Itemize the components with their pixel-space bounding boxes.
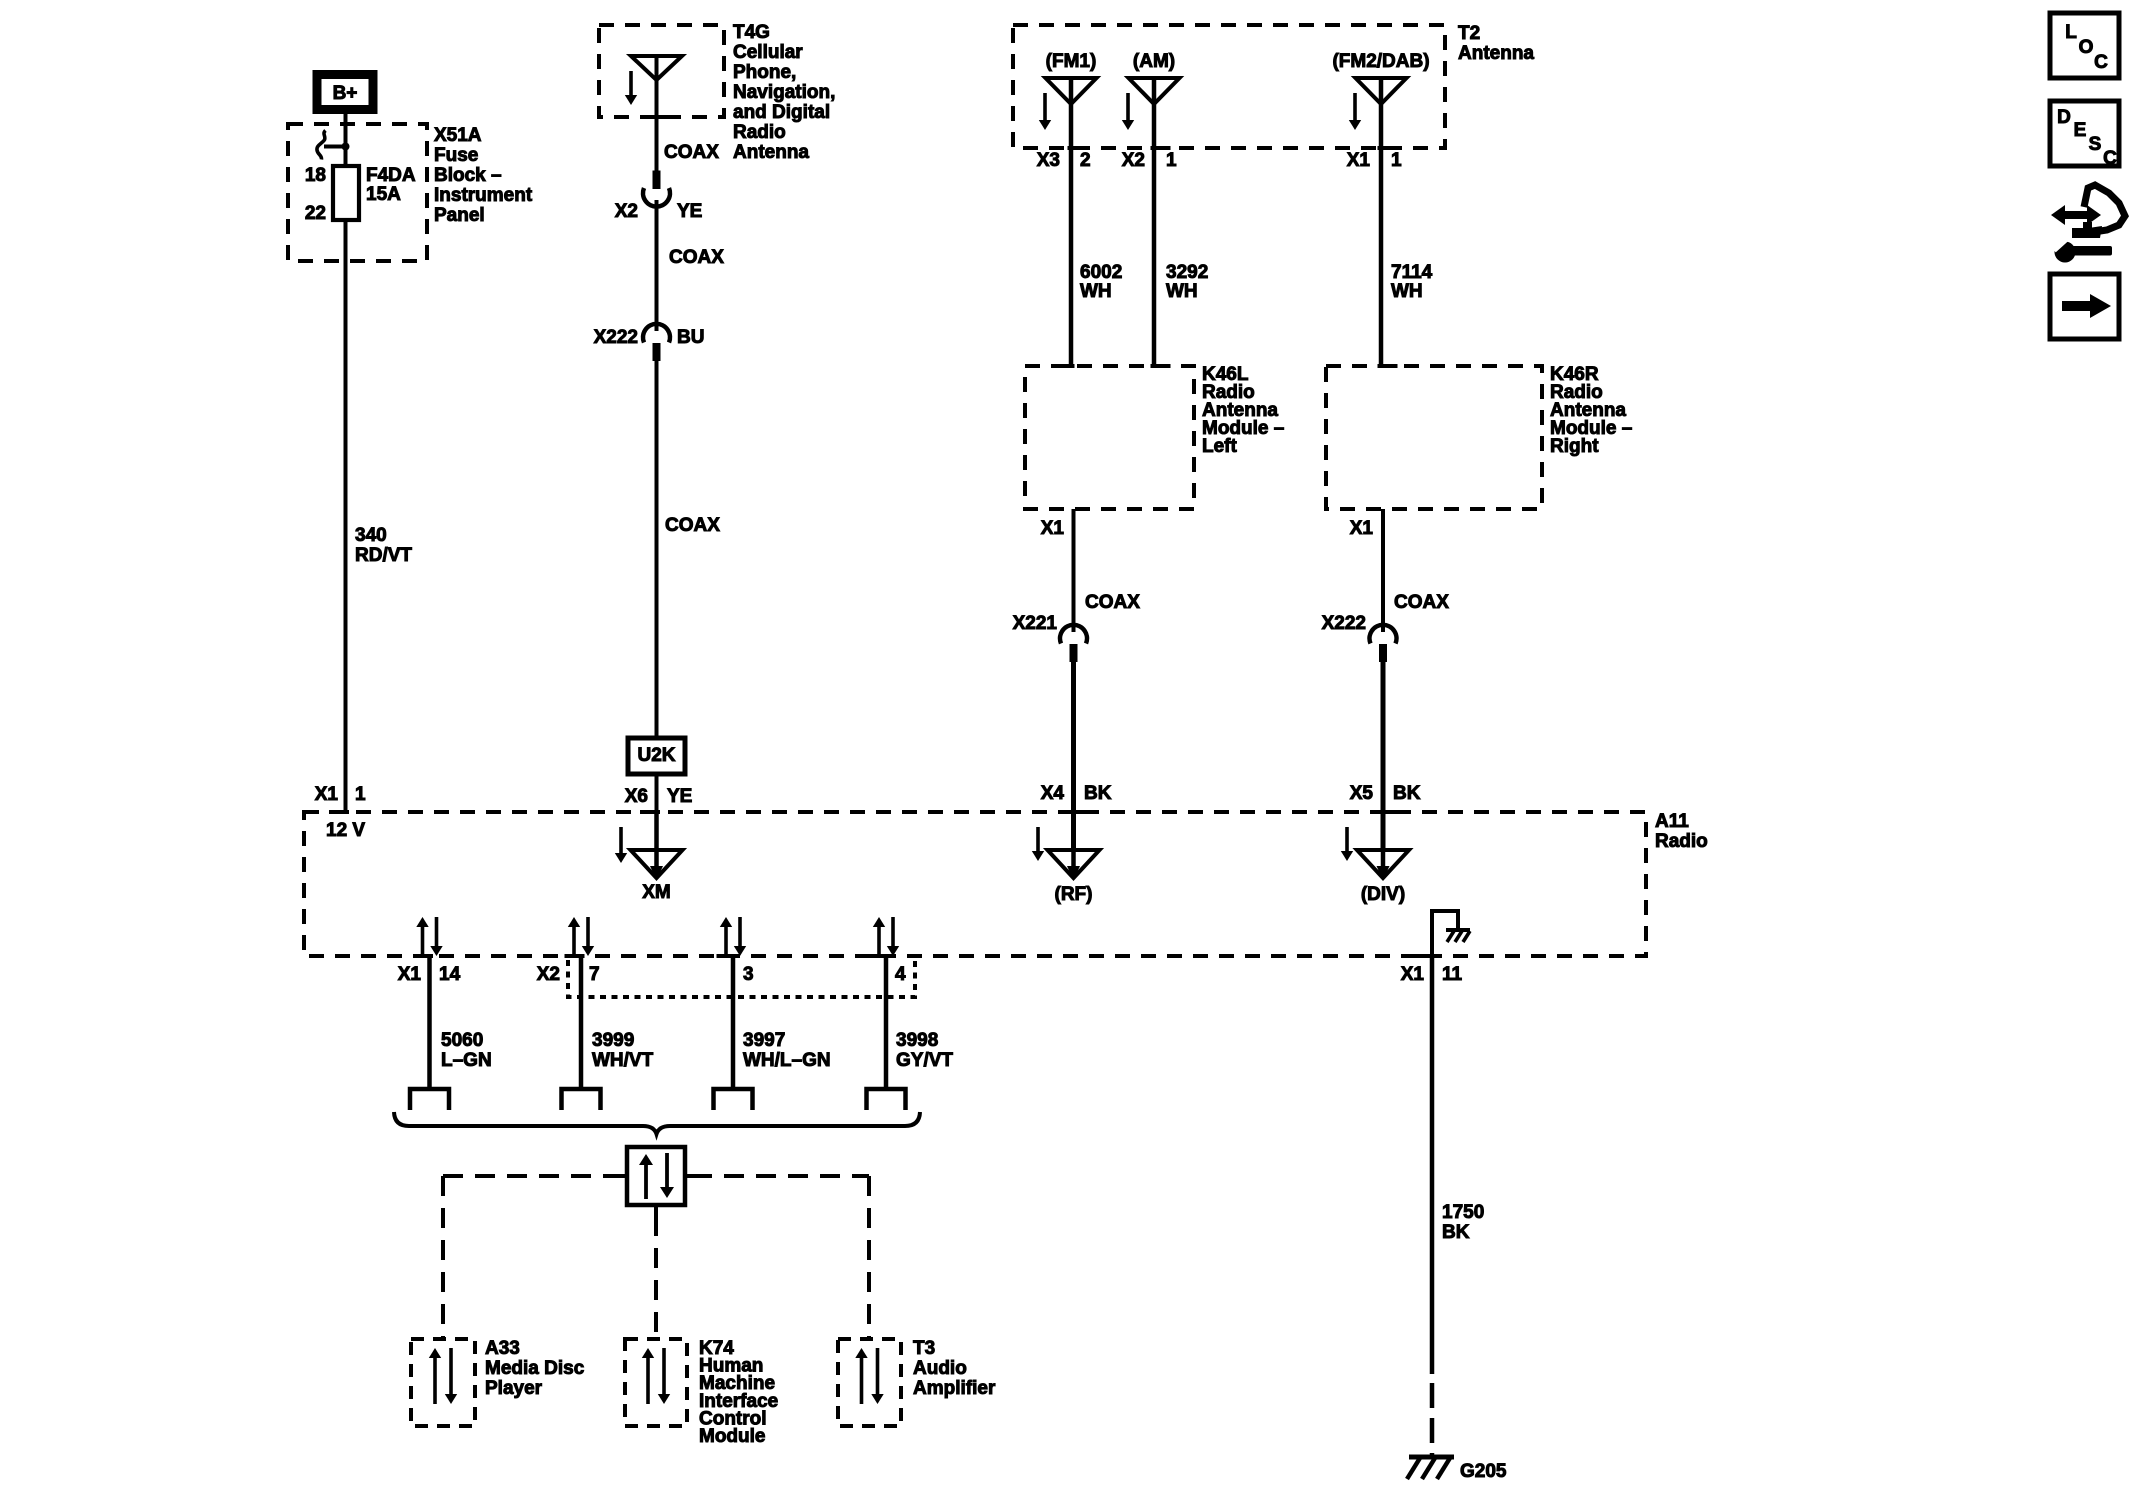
svg-text:BK: BK xyxy=(1393,783,1421,804)
tick at T4G box edge xyxy=(653,115,673,119)
svg-text:(DIV): (DIV) xyxy=(1361,884,1405,905)
pin X1 11 xyxy=(1401,956,1463,985)
svg-text:C: C xyxy=(2094,52,2108,73)
label (RF) xyxy=(1055,884,1093,905)
wire K46R X1 out xyxy=(1350,509,1383,632)
svg-text:T3: T3 xyxy=(913,1338,935,1359)
label 340 RD/VT xyxy=(355,525,412,566)
wire 3998 GY/VT xyxy=(884,956,889,1089)
pin X1 1 of radio xyxy=(315,784,366,812)
coax connector X2 xyxy=(643,171,670,207)
svg-text:Block –: Block – xyxy=(434,165,502,186)
svg-text:X1: X1 xyxy=(1401,964,1425,985)
coax connector X222 xyxy=(643,324,670,361)
label T2 Antenna xyxy=(1458,23,1534,64)
wire 5060 L-GN xyxy=(427,956,432,1089)
K46L module box xyxy=(1025,366,1194,509)
wire FM1 6002 WH xyxy=(1069,78,1074,366)
svg-text:(FM2/DAB): (FM2/DAB) xyxy=(1332,51,1429,72)
svg-text:3999: 3999 xyxy=(592,1030,634,1051)
svg-text:O: O xyxy=(2079,37,2094,58)
RF antenna symbol xyxy=(1048,850,1100,880)
svg-text:and Digital: and Digital xyxy=(733,102,830,123)
svg-text:X1: X1 xyxy=(398,964,422,985)
fuse pin 22 xyxy=(305,203,326,224)
label T4G xyxy=(733,22,835,163)
svg-text:S: S xyxy=(2089,134,2102,155)
label COAX 3 xyxy=(665,515,720,536)
svg-text:15A: 15A xyxy=(366,184,401,205)
svg-text:Right: Right xyxy=(1550,436,1599,457)
dashed bus right xyxy=(685,1174,869,1178)
label X222 BU xyxy=(594,327,705,348)
fuse pin 18 xyxy=(305,165,326,186)
svg-text:RD/VT: RD/VT xyxy=(355,545,412,566)
svg-text:BK: BK xyxy=(1442,1222,1470,1243)
svg-text:X2: X2 xyxy=(615,201,638,222)
wire 340 RD/VT xyxy=(344,220,348,812)
wire K46L X1 out xyxy=(1041,509,1074,632)
svg-text:Radio: Radio xyxy=(733,122,786,143)
svg-text:X3: X3 xyxy=(1037,150,1060,171)
coax wire X2 to X222 xyxy=(655,200,659,331)
label COAX left xyxy=(1085,592,1140,613)
XM antenna symbol xyxy=(631,850,683,880)
pin X4 BK xyxy=(1041,783,1112,812)
DIV antenna symbol xyxy=(1357,850,1409,880)
svg-text:WH/VT: WH/VT xyxy=(592,1050,654,1071)
coax connector X222 right xyxy=(1322,613,1397,662)
svg-text:C: C xyxy=(2103,148,2117,169)
svg-text:Antenna: Antenna xyxy=(733,142,809,163)
label K46L xyxy=(1202,364,1284,457)
DIV signal arrow xyxy=(1341,827,1353,861)
label COAX 2 xyxy=(669,247,724,268)
svg-text:3: 3 xyxy=(743,964,754,985)
circuit breaker hook xyxy=(317,131,346,160)
svg-text:COAX: COAX xyxy=(665,515,720,536)
svg-text:(RF): (RF) xyxy=(1055,884,1093,905)
svg-text:X1: X1 xyxy=(1041,518,1065,539)
dashed drop to K74 xyxy=(654,1205,658,1339)
fuse F4DA 15A xyxy=(333,166,359,220)
svg-text:5060: 5060 xyxy=(441,1030,483,1051)
svg-text:3997: 3997 xyxy=(743,1030,785,1051)
battery feed B+ xyxy=(317,75,373,110)
AM signal arrow xyxy=(1122,93,1134,130)
splice U2K xyxy=(628,738,685,774)
radio data arrows pin 7 xyxy=(568,917,594,956)
svg-text:22: 22 xyxy=(305,203,326,224)
svg-text:X221: X221 xyxy=(1013,613,1058,634)
svg-text:Navigation,: Navigation, xyxy=(733,82,835,103)
AM antenna symbol xyxy=(1129,78,1180,104)
label 12 V xyxy=(326,820,365,841)
svg-text:E: E xyxy=(2074,120,2087,141)
XM signal arrow xyxy=(615,827,627,863)
label A11 Radio xyxy=(1655,811,1708,852)
svg-text:COAX: COAX xyxy=(664,142,719,163)
FM2/DAB antenna symbol xyxy=(1356,78,1407,104)
label K46R xyxy=(1550,364,1632,457)
svg-text:X222: X222 xyxy=(1322,613,1366,634)
svg-text:1: 1 xyxy=(1391,150,1402,171)
svg-text:GY/VT: GY/VT xyxy=(896,1050,953,1071)
svg-text:14: 14 xyxy=(439,964,461,985)
radio data arrows pin 4 xyxy=(873,917,899,956)
label 7114 WH xyxy=(1391,262,1433,302)
svg-text:3292: 3292 xyxy=(1166,262,1208,283)
svg-text:WH: WH xyxy=(1166,281,1198,302)
radio data arrows pin 3 xyxy=(720,917,746,956)
ground G205 xyxy=(1407,1457,1454,1479)
pin X2 1 xyxy=(1122,148,1177,171)
svg-text:Audio: Audio xyxy=(913,1358,967,1379)
label 1750 BK xyxy=(1442,1202,1484,1243)
svg-text:COAX: COAX xyxy=(669,247,724,268)
radio data arrows pin 14 xyxy=(416,917,442,956)
label 3999 WH/VT xyxy=(592,1030,654,1071)
K74 HMI box xyxy=(625,1339,687,1426)
svg-text:18: 18 xyxy=(305,165,326,186)
svg-text:12 V: 12 V xyxy=(326,820,365,841)
icon forward arrow xyxy=(2050,274,2119,339)
label 3292 WH xyxy=(1166,262,1208,302)
icon LOC xyxy=(2050,13,2119,78)
svg-text:340: 340 xyxy=(355,525,387,546)
svg-text:X5: X5 xyxy=(1350,783,1374,804)
svg-text:X51A: X51A xyxy=(434,125,482,146)
svg-text:X1: X1 xyxy=(1350,518,1374,539)
svg-text:7114: 7114 xyxy=(1391,262,1433,283)
svg-text:A33: A33 xyxy=(485,1338,520,1359)
wire 3999 WH/VT xyxy=(579,956,584,1089)
dashed bus left xyxy=(443,1174,627,1178)
svg-text:Antenna: Antenna xyxy=(1458,43,1534,64)
junction node xyxy=(342,143,350,151)
coax wire X222 to U2K xyxy=(655,358,659,738)
svg-text:G205: G205 xyxy=(1460,1461,1507,1482)
icon DESC xyxy=(2050,101,2119,169)
svg-text:3998: 3998 xyxy=(896,1030,938,1051)
wire AM 3292 WH xyxy=(1152,78,1157,366)
pin X3 2 xyxy=(1037,148,1091,171)
label G205 xyxy=(1460,1461,1507,1482)
svg-text:Phone,: Phone, xyxy=(733,62,796,83)
svg-text:WH: WH xyxy=(1391,281,1423,302)
svg-text:Media Disc: Media Disc xyxy=(485,1358,585,1379)
label COAX right xyxy=(1394,592,1449,613)
dashed drop to A33 xyxy=(441,1176,445,1339)
svg-text:7: 7 xyxy=(589,964,600,985)
svg-text:X1: X1 xyxy=(315,784,339,805)
T2 antenna box xyxy=(1013,25,1445,148)
A11 radio box xyxy=(304,812,1646,956)
label F4DA 15A xyxy=(366,165,416,205)
svg-text:1: 1 xyxy=(355,784,366,805)
svg-text:WH/L–GN: WH/L–GN xyxy=(743,1050,831,1071)
T3 data arrows xyxy=(855,1348,883,1404)
wire 3997 WH/L-GN xyxy=(731,956,736,1089)
pin X6 of radio xyxy=(625,786,693,812)
svg-text:X222: X222 xyxy=(594,327,638,348)
wire X221 to radio X4 xyxy=(1071,662,1076,812)
svg-text:D: D xyxy=(2057,107,2071,128)
label K74 xyxy=(699,1338,778,1447)
terminal connector pin 7 xyxy=(562,1089,601,1110)
terminal at K46L AM xyxy=(1151,364,1171,368)
RF signal arrow xyxy=(1032,827,1044,861)
radio internal ground xyxy=(1432,911,1470,956)
T4G antenna symbol xyxy=(631,56,682,80)
label (FM2/DAB) xyxy=(1332,51,1429,72)
wire FM2/DAB 7114 WH xyxy=(1379,78,1384,366)
coax wire antenna to X2 xyxy=(655,80,659,171)
pin X1 14 xyxy=(398,956,461,985)
FM1 signal arrow xyxy=(1039,93,1051,130)
svg-text:A11: A11 xyxy=(1655,811,1689,832)
svg-text:COAX: COAX xyxy=(1394,592,1449,613)
svg-text:L–GN: L–GN xyxy=(441,1050,492,1071)
svg-text:L: L xyxy=(2065,22,2077,43)
terminal connector pin 3 xyxy=(714,1089,753,1110)
svg-text:BU: BU xyxy=(677,327,704,348)
fuse block X51A outline xyxy=(288,124,427,261)
svg-text:Cellular: Cellular xyxy=(733,42,803,63)
label T3 xyxy=(913,1338,996,1399)
terminal connector pin 4 xyxy=(867,1089,906,1110)
K46R module box xyxy=(1326,366,1542,509)
pin X5 BK xyxy=(1350,783,1421,812)
svg-text:WH: WH xyxy=(1080,281,1112,302)
T3 audio amplifier box xyxy=(838,1339,901,1426)
svg-text:Instrument: Instrument xyxy=(434,185,533,206)
svg-text:4: 4 xyxy=(895,964,906,985)
terminal connector pin 14 xyxy=(410,1089,449,1110)
label X51A fuse block xyxy=(434,125,533,226)
serial data link box xyxy=(627,1147,685,1205)
svg-text:11: 11 xyxy=(1442,964,1463,985)
wire U2K to radio pin X6 xyxy=(655,774,659,812)
svg-text:T2: T2 xyxy=(1458,23,1480,44)
wire X6 to XM antenna xyxy=(654,812,659,850)
svg-text:B+: B+ xyxy=(333,83,358,104)
label 3997 WH/L-GN xyxy=(743,1030,831,1071)
T4G antenna box xyxy=(599,25,724,117)
label XM xyxy=(642,882,671,903)
svg-text:2: 2 xyxy=(1080,150,1091,171)
label COAX 1 xyxy=(664,142,719,163)
wire X5 to DIV antenna xyxy=(1381,812,1386,850)
svg-text:U2K: U2K xyxy=(637,745,675,766)
svg-text:Radio: Radio xyxy=(1655,831,1708,852)
A33 data arrows xyxy=(429,1348,457,1404)
svg-text:BK: BK xyxy=(1084,783,1112,804)
pin 3 xyxy=(717,956,754,985)
pin X1 1 antenna xyxy=(1347,148,1402,171)
svg-text:X2: X2 xyxy=(537,964,560,985)
svg-text:6002: 6002 xyxy=(1080,262,1122,283)
wire dashed to ground xyxy=(1430,1383,1435,1455)
bundle brace xyxy=(394,1112,920,1134)
label (AM) xyxy=(1133,51,1175,72)
svg-text:X6: X6 xyxy=(625,786,648,807)
label 5060 L-GN xyxy=(441,1030,492,1071)
svg-text:Player: Player xyxy=(485,1378,543,1399)
svg-text:F4DA: F4DA xyxy=(366,165,416,186)
label (DIV) xyxy=(1361,884,1405,905)
coax connector X221 xyxy=(1013,613,1087,662)
terminal at K46R xyxy=(1378,364,1398,368)
K74 data arrows xyxy=(642,1348,670,1404)
FM2/DAB signal arrow xyxy=(1349,93,1361,130)
icon diagnostic wrench xyxy=(2050,185,2125,263)
svg-text:Panel: Panel xyxy=(434,205,485,226)
label 6002 WH xyxy=(1080,262,1122,302)
wire B+ to fuse block xyxy=(344,114,348,166)
connector X2 dotted group xyxy=(568,960,915,997)
A33 media disc player box xyxy=(411,1339,475,1426)
label X2 YE xyxy=(615,201,703,222)
svg-text:1750: 1750 xyxy=(1442,1202,1484,1223)
svg-text:(FM1): (FM1) xyxy=(1046,51,1097,72)
svg-text:(AM): (AM) xyxy=(1133,51,1175,72)
label 3998 GY/VT xyxy=(896,1030,953,1071)
dashed drop to T3 xyxy=(867,1176,871,1339)
svg-text:Fuse: Fuse xyxy=(434,145,478,166)
svg-text:Amplifier: Amplifier xyxy=(913,1378,996,1399)
label A33 xyxy=(485,1338,585,1399)
svg-text:X4: X4 xyxy=(1041,783,1065,804)
svg-text:XM: XM xyxy=(642,882,671,903)
pin X2 7 xyxy=(537,956,600,985)
svg-text:1: 1 xyxy=(1166,150,1177,171)
svg-text:YE: YE xyxy=(667,786,692,807)
wire X222 to radio X5 xyxy=(1381,662,1386,812)
pin 4 xyxy=(870,956,907,985)
svg-text:X1: X1 xyxy=(1347,150,1371,171)
label (FM1) xyxy=(1046,51,1097,72)
wire X4 to RF antenna xyxy=(1071,812,1076,850)
svg-text:T4G: T4G xyxy=(733,22,770,43)
svg-text:COAX: COAX xyxy=(1085,592,1140,613)
T4G signal arrow xyxy=(625,71,637,105)
svg-text:Module: Module xyxy=(699,1426,766,1447)
svg-text:Left: Left xyxy=(1202,436,1238,457)
FM1 antenna symbol xyxy=(1046,78,1097,104)
terminal at K46L FM1 xyxy=(1055,364,1075,368)
svg-text:YE: YE xyxy=(677,201,702,222)
wire 1750 BK xyxy=(1430,956,1435,1374)
svg-text:X2: X2 xyxy=(1122,150,1145,171)
